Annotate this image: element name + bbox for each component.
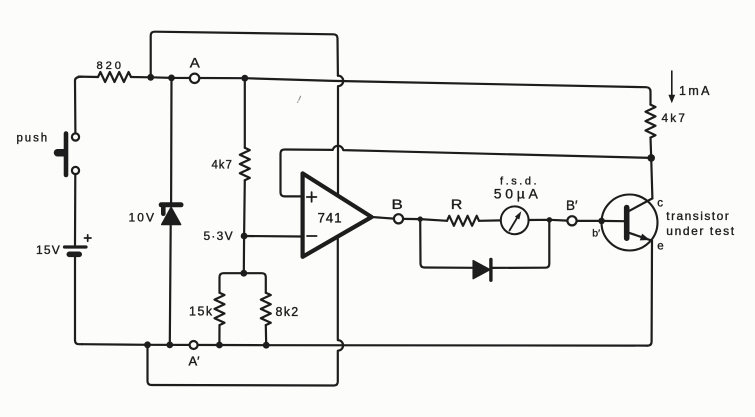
wire: 5.3V node down to divider bracket (243, 236, 246, 273)
node dot 5.3V (241, 233, 248, 240)
wire: left branch down from A rail to push button (75, 77, 83, 134)
svg-text:e: e (657, 241, 663, 253)
meter needle arrowhead (515, 211, 521, 219)
op-amp + sign (307, 192, 317, 202)
wire: 15k to A' rail (218, 325, 220, 345)
svg-text:5·3V: 5·3V (204, 229, 234, 243)
junction dot 15k bottom (216, 342, 223, 349)
svg-text:R: R (451, 196, 463, 212)
wire: battery to A' rail (75, 257, 82, 344)
diode D2 cathode bar (489, 260, 492, 281)
svg-text:under test: under test (666, 224, 735, 238)
wire: collector node down to transistor collector (651, 158, 652, 199)
svg-text:transistor: transistor (666, 209, 730, 223)
svg-text:A: A (190, 55, 201, 71)
zener tail (161, 207, 166, 214)
transistor base bar (624, 208, 630, 239)
wire: 4k7 to 5.3V node (243, 180, 246, 236)
wire: 8k2 to A' rail (265, 325, 268, 345)
wire: B to R (403, 219, 447, 221)
wire: zener branch vertical upper (170, 78, 173, 202)
op-amp U1 741 triangle (303, 173, 372, 256)
junction dot bracket top (240, 270, 247, 277)
resistor 8k2 (261, 293, 271, 325)
zener anode triangle (162, 207, 181, 224)
node A' terminal circle (190, 341, 198, 349)
junction dot diode branch left (418, 216, 423, 221)
push button upper contact (72, 133, 79, 140)
junction dot at 4k7 divider branch (241, 75, 248, 82)
resistor 15k (215, 293, 225, 325)
wire: push button to battery (74, 174, 77, 245)
battery short plate (69, 252, 79, 258)
junction dot bottom box (144, 341, 151, 348)
node A terminal circle (190, 74, 199, 83)
svg-text:10V: 10V (129, 211, 157, 225)
wire: A rail top horizontal from left branch through node A to right 4k7 (79, 75, 99, 78)
wire: diode bypass branch (420, 219, 549, 268)
stray scan mark (298, 96, 301, 102)
meter M1 circle (501, 206, 529, 234)
wire: long vertical with hop over A rail (338, 76, 343, 196)
wire: R to meter (479, 219, 501, 222)
wire: A' rail bottom horizontal (82, 344, 648, 345)
wire: divider vertical from A to 4k7 (244, 78, 246, 148)
transistor emitter stroke (628, 232, 653, 240)
wire: transistor emitter down to A' rail (648, 241, 652, 346)
wire: 820 to node A and onward, sloping right to corner above 4k7 (131, 77, 651, 105)
svg-text:B′: B′ (566, 198, 578, 213)
battery 15V long plate (65, 245, 87, 248)
junction dot at 820/top-box (147, 74, 154, 81)
meter needle (510, 216, 519, 231)
svg-text:8k2: 8k2 (276, 305, 300, 319)
svg-text:741: 741 (318, 210, 343, 225)
svg-text:50µA: 50µA (494, 186, 542, 202)
svg-text:c: c (657, 198, 663, 210)
wire: B' to transistor base (577, 220, 602, 222)
current arrowhead (668, 95, 675, 104)
wire: 4k7 to collector node (649, 138, 652, 158)
node B' terminal circle (567, 216, 576, 225)
junction dot 8k2 bottom (263, 342, 270, 349)
resistor 820 (98, 72, 131, 82)
svg-text:15k: 15k (189, 305, 214, 319)
junction dot zener bottom (166, 342, 173, 349)
transistor collector stroke (628, 198, 653, 211)
svg-text:4k7: 4k7 (662, 111, 688, 125)
push button handle (58, 149, 65, 157)
diode D2 triangle (473, 261, 490, 279)
junction dot at base (598, 218, 605, 225)
wire: zener to A' rail (169, 225, 172, 345)
wire: non-inverting input sense loop (281, 146, 652, 197)
svg-text:820: 820 (97, 60, 124, 72)
svg-text:A′: A′ (189, 354, 201, 369)
node B terminal circle (394, 214, 403, 223)
wire: 5.3V node to op-amp inverting input (244, 235, 301, 238)
svg-text:4k7: 4k7 (212, 160, 233, 172)
zener diode D1 cathode bar (161, 202, 181, 207)
push button lower contact (72, 167, 79, 174)
svg-text:1mA: 1mA (679, 84, 712, 98)
svg-text:b′: b′ (592, 228, 600, 240)
resistor R (447, 216, 479, 226)
svg-text:15V: 15V (36, 243, 61, 257)
wire: meter to B' (529, 219, 568, 222)
wire: op-amp output to node B (372, 217, 394, 219)
resistor 4k7 (divider) (240, 148, 250, 180)
push button actuator bar (64, 134, 69, 176)
transistor Q1 under test: envelope circle (602, 195, 658, 251)
junction dot collector node (647, 154, 655, 162)
transistor emitter arrowhead (640, 234, 650, 241)
wire: bracket to 15k and 8k2 (220, 273, 266, 293)
current arrow 1mA (671, 71, 673, 97)
battery + sign (85, 235, 92, 242)
junction dot diode branch right (547, 217, 552, 222)
resistor 4k7 (collector load) (646, 105, 656, 138)
op-amp - sign (307, 235, 317, 237)
svg-text:push: push (17, 133, 50, 145)
junction dot at zener branch (168, 75, 175, 82)
transistor base wire inside (602, 220, 624, 223)
wire: top box (A rail loop over the top) (151, 32, 338, 78)
wire: long vertical lower part with hop over A' rail, into bottom box (148, 239, 344, 386)
svg-text:B: B (392, 196, 403, 212)
